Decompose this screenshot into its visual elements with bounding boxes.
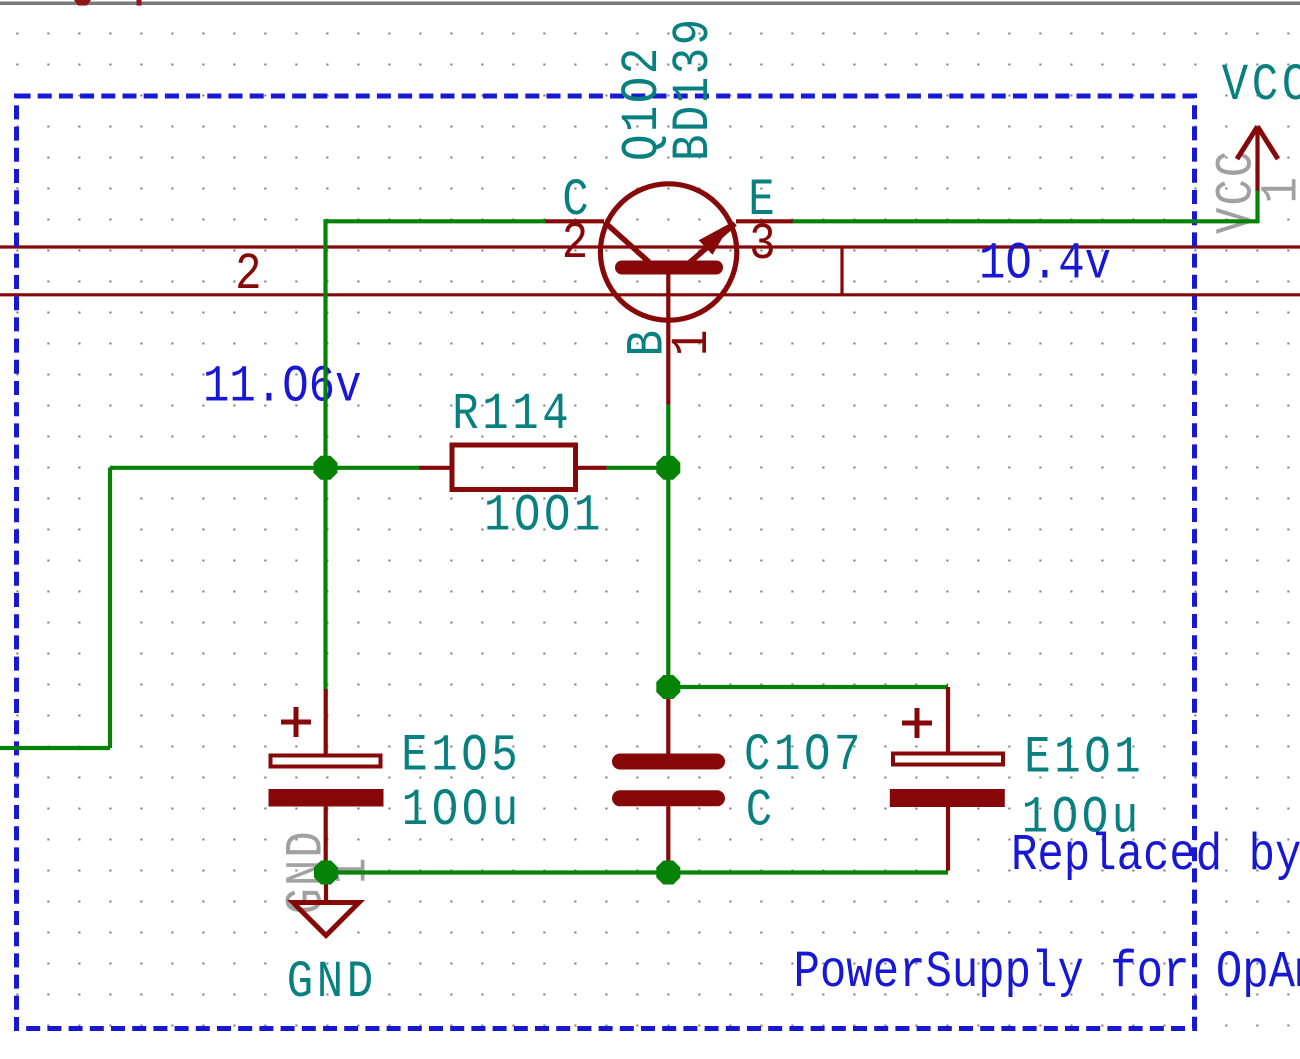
- bus riser x842: [840, 247, 843, 295]
- wire left drop: [108, 468, 112, 748]
- junction GND: [314, 861, 338, 885]
- svg-text:C1O7: C1O7: [744, 727, 864, 785]
- svg-text:BD139: BD139: [665, 16, 723, 161]
- top toolbar edge: [0, 2, 1300, 6]
- svg-text:1OO1: 1OO1: [484, 488, 604, 546]
- svg-text:1OOu: 1OOu: [402, 782, 522, 840]
- wire VCC stem green: [1255, 190, 1259, 223]
- svg-text:R114: R114: [452, 386, 572, 444]
- wire exit left: [0, 746, 110, 750]
- VCC power symbol: [1237, 127, 1278, 191]
- resistor R114 body: [419, 445, 607, 490]
- wire E-to-VCC: [793, 219, 1258, 223]
- transistor Q102 body: [545, 184, 793, 405]
- junction C107 top: [656, 675, 680, 699]
- svg-text:Q1O2: Q1O2: [614, 45, 672, 161]
- svg-text:E1O5: E1O5: [401, 728, 521, 786]
- junction R114 left: [314, 456, 338, 480]
- svg-text:E1O1: E1O1: [1024, 730, 1144, 788]
- svg-text:11.O6v: 11.O6v: [203, 359, 361, 417]
- red glyph fragment 2: [137, 0, 142, 6]
- wire C-corner: [324, 219, 546, 223]
- capacitor C107 body: [620, 687, 717, 873]
- svg-text:1: 1: [664, 330, 722, 356]
- wire bottom rail: [326, 870, 948, 874]
- transistor emitter arrow: [699, 223, 732, 255]
- svg-text:PowerSupply for OpAmp: PowerSupply for OpAmp: [794, 944, 1300, 1002]
- capacitor E101 body: [890, 687, 1005, 871]
- svg-text:2: 2: [562, 215, 588, 273]
- wire left-to-R114: [110, 466, 419, 470]
- junction R114 right / base: [656, 456, 680, 480]
- wire junction-down-C107: [666, 468, 670, 687]
- svg-text:VCC: VCC: [1222, 57, 1300, 115]
- svg-text:GND: GND: [287, 954, 377, 1012]
- wire junction-to-E105: [323, 468, 327, 690]
- junction bottom rail: [656, 861, 680, 885]
- capacitor E105 body: [269, 689, 384, 873]
- svg-text:Replaced by: Replaced by: [1011, 827, 1300, 885]
- bus line lower: [0, 293, 1300, 296]
- wire base down: [666, 405, 670, 468]
- svg-text:1O.4v: 1O.4v: [979, 236, 1111, 294]
- ground symbol: [293, 873, 359, 936]
- svg-text:1: 1: [1254, 177, 1300, 203]
- wire C107-to-E101 top: [668, 685, 948, 689]
- wire corner-down: [323, 219, 327, 467]
- svg-text:2: 2: [235, 246, 261, 304]
- svg-text:C: C: [746, 783, 776, 841]
- wire R114-to-junction: [607, 466, 669, 470]
- red glyph fragment 1: [74, 0, 91, 6]
- svg-text:3: 3: [749, 216, 775, 274]
- bus line upper: [0, 245, 1300, 248]
- dashed sheet border: [17, 96, 1195, 1029]
